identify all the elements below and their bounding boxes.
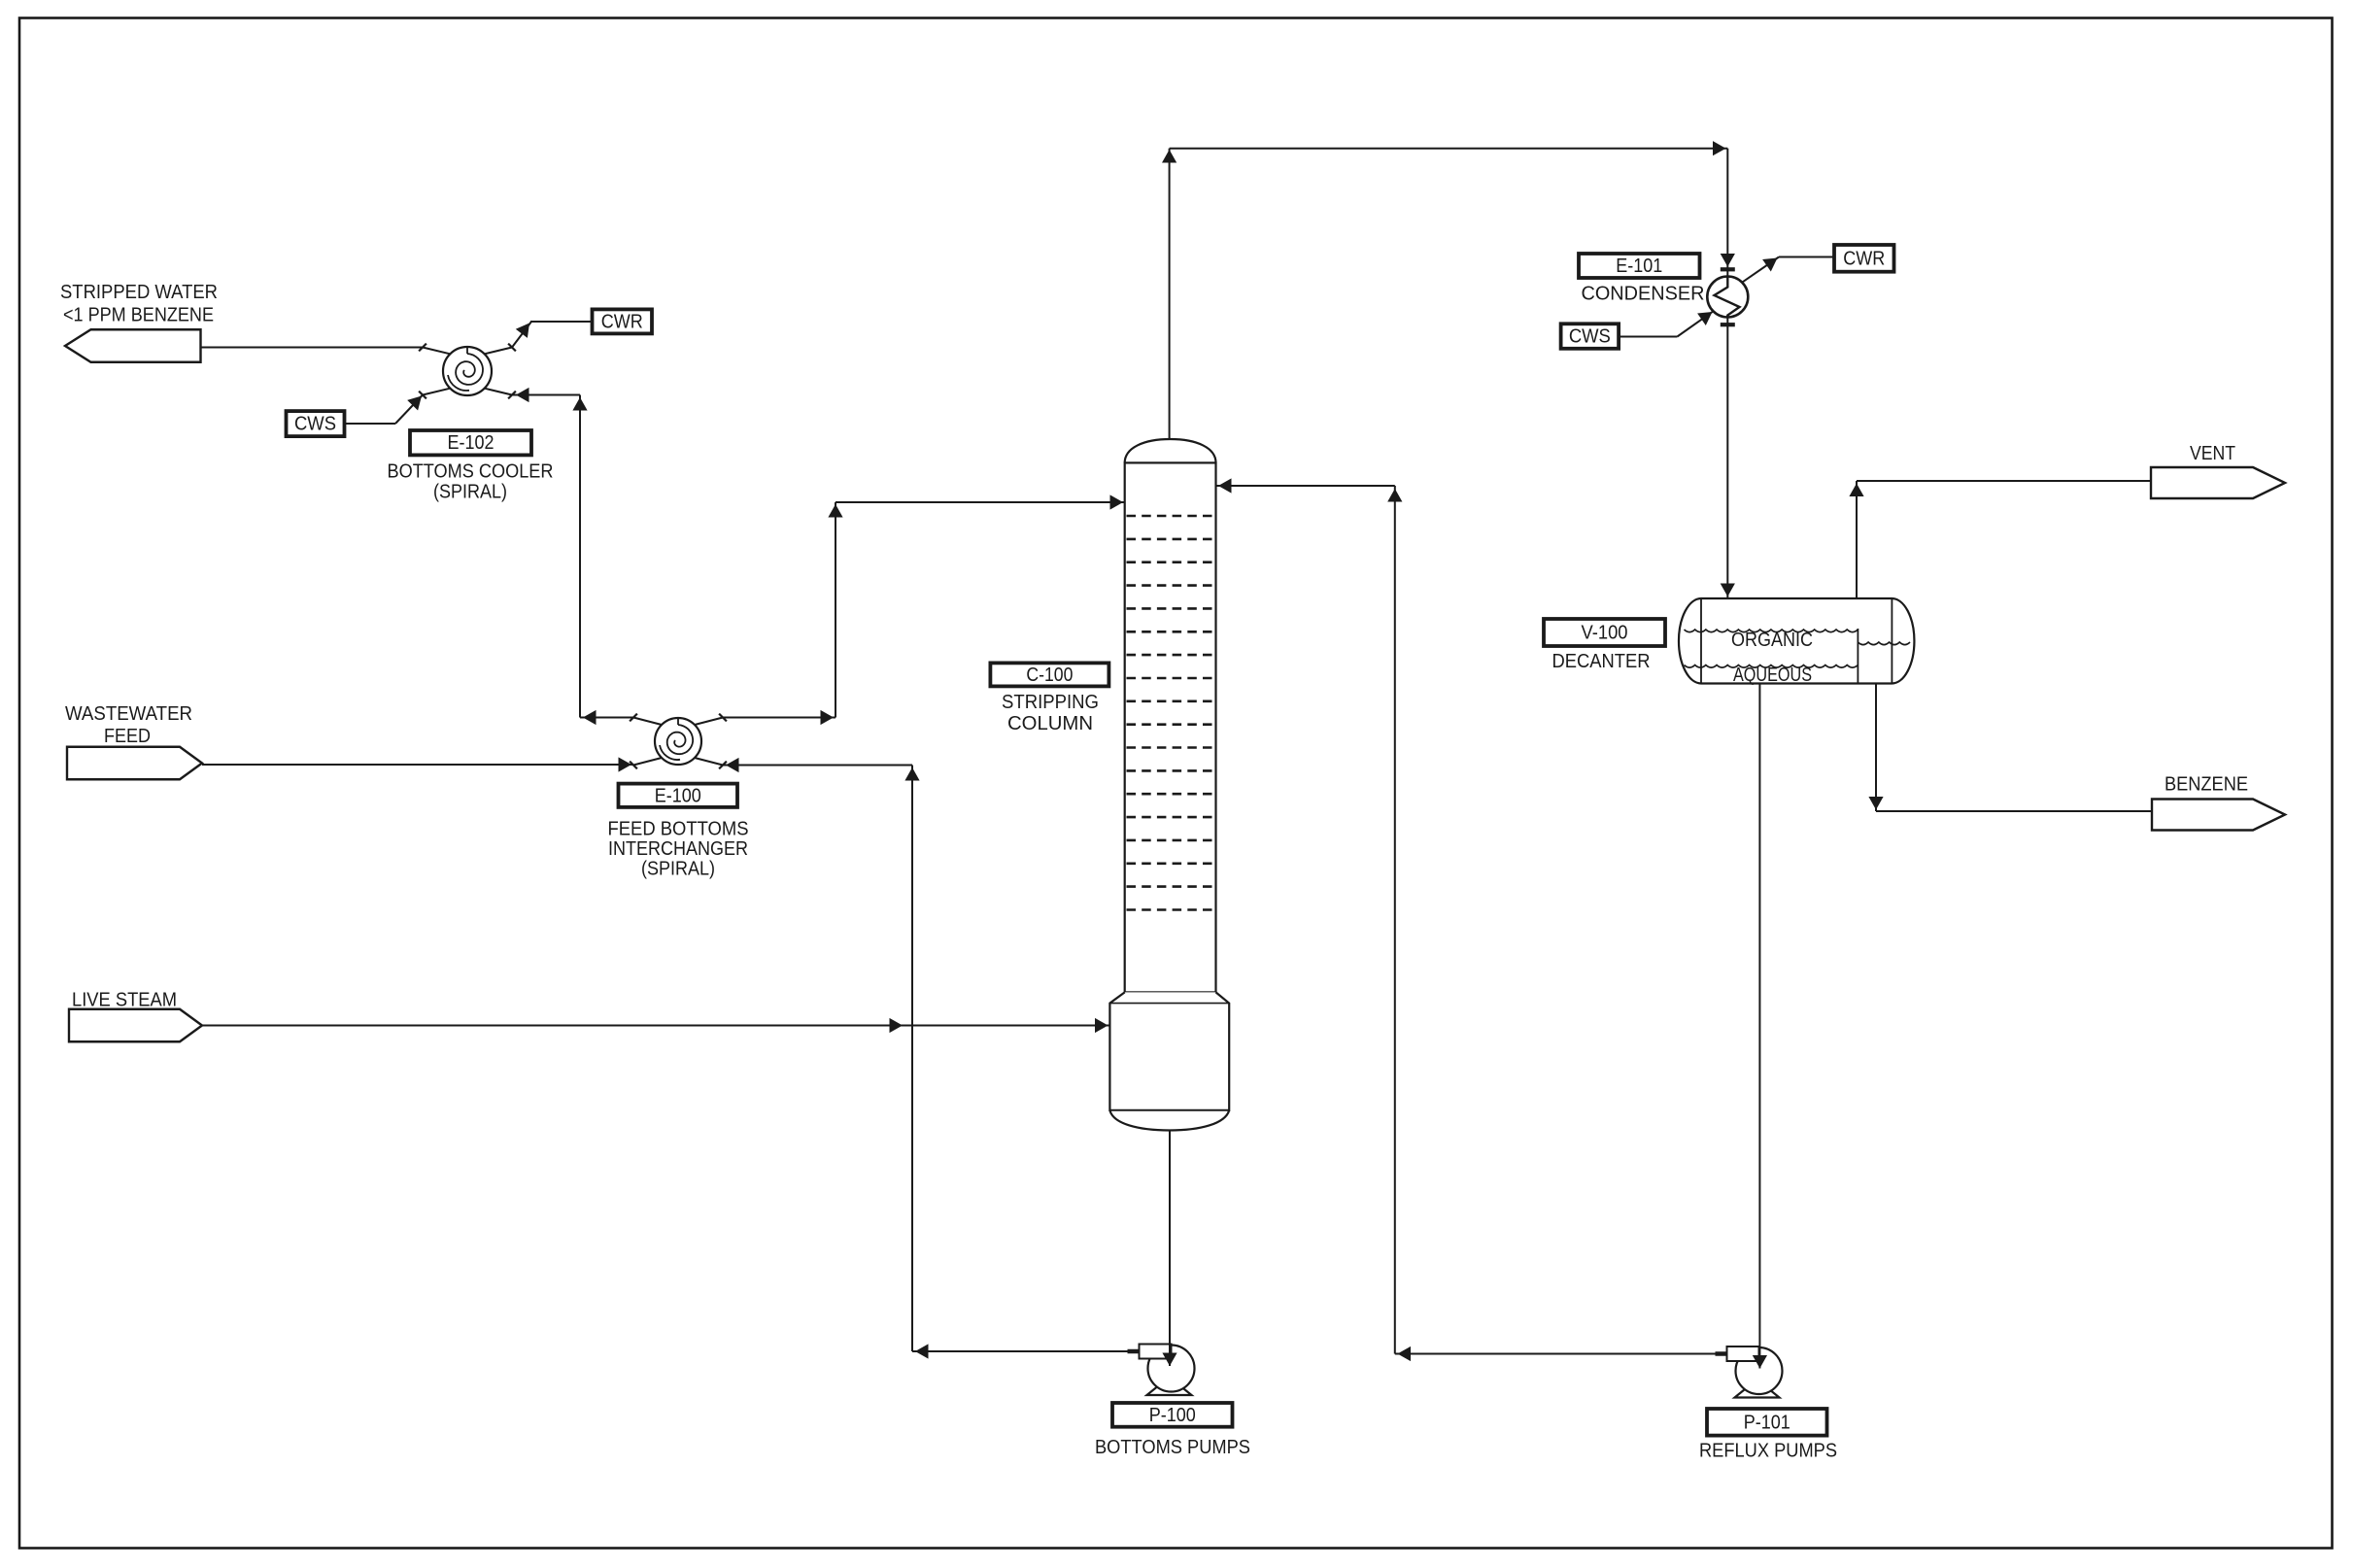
wire hot bottoms from riser into E-100 bbox=[723, 758, 912, 772]
wire P-100 discharge to riser bbox=[912, 1344, 1128, 1358]
decanter V-100 vessel bbox=[1679, 598, 1914, 684]
heat exchanger E-102 (spiral bottoms cooler) bbox=[419, 344, 516, 399]
tag box E-101 bbox=[1579, 254, 1700, 278]
decanter weir bbox=[1857, 629, 1859, 683]
wire CWS to E-101 bbox=[1619, 311, 1714, 336]
svg-text:DECANTER: DECANTER bbox=[1552, 650, 1651, 672]
label LIVE STEAM bbox=[72, 989, 177, 1011]
utility box CWR (E-102) bbox=[593, 309, 653, 333]
svg-text:CWS: CWS bbox=[1569, 325, 1611, 348]
decanter organic level (wavy) bbox=[1685, 630, 1859, 632]
column C-100 trays (dashed) bbox=[1127, 516, 1214, 910]
tag box P-101 bbox=[1707, 1409, 1827, 1436]
svg-text:<1 PPM BENZENE: <1 PPM BENZENE bbox=[63, 304, 214, 326]
wire reflux riser bbox=[1387, 486, 1402, 1354]
stream pointer STRIPPED WATER (outlet, points left) bbox=[65, 329, 201, 362]
utility box CWS (E-101) bbox=[1561, 324, 1620, 349]
svg-text:P-100: P-100 bbox=[1149, 1404, 1196, 1426]
wire organic outlet to benzene pointer bbox=[1868, 684, 2152, 812]
utility box CWS (E-102) bbox=[287, 411, 345, 436]
svg-text:(SPIRAL): (SPIRAL) bbox=[433, 481, 507, 503]
svg-text:REFLUX PUMPS: REFLUX PUMPS bbox=[1699, 1440, 1837, 1462]
svg-text:CWS: CWS bbox=[294, 413, 336, 435]
wire cooled bottoms E-100 to riser corner bbox=[580, 710, 633, 725]
label CONDENSER bbox=[1582, 283, 1705, 305]
wire CWS to E-102 bbox=[345, 395, 424, 425]
tag box C-100 bbox=[990, 663, 1108, 686]
wire E-102 CWR outlet diagonal bbox=[512, 322, 531, 348]
svg-text:LIVE STEAM: LIVE STEAM bbox=[72, 989, 177, 1011]
wire bottoms riser pump to E-100 bbox=[904, 766, 919, 1352]
wire overhead horizontal to condenser bbox=[1170, 141, 1728, 155]
svg-text:STRIPPED WATER: STRIPPED WATER bbox=[60, 281, 218, 303]
label STRIPPING COLUMN bbox=[1002, 691, 1099, 734]
tag box E-102 bbox=[410, 430, 531, 455]
label FEED BOTTOMS INTERCHANGER (SPIRAL) bbox=[608, 818, 749, 880]
svg-text:C-100: C-100 bbox=[1026, 664, 1073, 686]
svg-text:CONDENSER: CONDENSER bbox=[1582, 283, 1705, 305]
wire heated feed riser bbox=[828, 502, 842, 718]
wire heated feed to column bbox=[835, 494, 1125, 509]
utility box CWR (E-101) bbox=[1834, 245, 1894, 272]
label WASTEWATER FEED bbox=[65, 702, 192, 747]
wire heated feed E-100 to corner bbox=[723, 710, 835, 725]
wire reflux into column bbox=[1216, 478, 1395, 493]
tag box E-100 bbox=[619, 784, 738, 807]
label STRIPPED WATER &lt;1 PPM BENZENE bbox=[60, 281, 218, 326]
svg-text:ORGANIC: ORGANIC bbox=[1731, 629, 1813, 651]
wire hot bottoms into E-102 (from riser) bbox=[512, 388, 580, 402]
column C-100 shell and top dome bbox=[1125, 439, 1216, 992]
svg-text:CWR: CWR bbox=[1843, 247, 1885, 269]
pump P-100 (bottoms pump) bbox=[1128, 1345, 1195, 1396]
svg-text:STRIPPING: STRIPPING bbox=[1002, 691, 1099, 713]
label REFLUX PUMPS bbox=[1699, 1440, 1837, 1462]
wire column bottoms to P-100 bbox=[1162, 1131, 1176, 1367]
svg-text:V-100: V-100 bbox=[1582, 622, 1628, 644]
wire live steam to column bbox=[202, 1018, 1109, 1033]
svg-text:BOTTOMS COOLER: BOTTOMS COOLER bbox=[388, 460, 554, 483]
wire bottoms riser E-100 to E-102 bbox=[572, 395, 587, 718]
wire wastewater feed to E-100 bbox=[202, 757, 633, 771]
svg-text:P-101: P-101 bbox=[1744, 1411, 1790, 1433]
wire aqueous outlet decanter to P-101 bbox=[1753, 684, 1767, 1369]
svg-text:FEED: FEED bbox=[104, 725, 151, 747]
label BENZENE bbox=[2165, 773, 2248, 796]
heat exchanger E-100 (spiral feed/bottoms interchanger) bbox=[630, 714, 727, 769]
svg-text:E-102: E-102 bbox=[448, 431, 494, 454]
svg-text:WASTEWATER: WASTEWATER bbox=[65, 702, 192, 725]
stream pointer BENZENE bbox=[2152, 800, 2285, 831]
wire E-102 CWR horizontal bbox=[530, 321, 593, 323]
label DECANTER bbox=[1552, 650, 1651, 672]
tag box V-100 bbox=[1544, 619, 1665, 646]
svg-text:CWR: CWR bbox=[601, 310, 643, 332]
stream pointer WASTEWATER FEED bbox=[67, 747, 202, 780]
wire P-101 discharge to reflux riser bbox=[1395, 1346, 1716, 1361]
svg-text:COLUMN: COLUMN bbox=[1007, 712, 1093, 734]
condenser E-101 (circle with zigzag) bbox=[1707, 269, 1748, 324]
wire column overhead riser bbox=[1162, 149, 1176, 439]
svg-text:E-100: E-100 bbox=[655, 784, 701, 806]
decanter overflow level (wavy) bbox=[1858, 642, 1910, 645]
svg-text:BOTTOMS PUMPS: BOTTOMS PUMPS bbox=[1095, 1436, 1250, 1458]
decanter interface level (wavy) bbox=[1685, 665, 1859, 668]
svg-text:BENZENE: BENZENE bbox=[2165, 773, 2248, 796]
svg-text:E-101: E-101 bbox=[1616, 255, 1662, 277]
wire vent from decanter bbox=[1849, 481, 2151, 598]
svg-text:VENT: VENT bbox=[2190, 442, 2235, 464]
label ORGANIC bbox=[1731, 629, 1813, 651]
stream pointer VENT bbox=[2151, 467, 2285, 498]
wire condensate E-101 to decanter V-100 bbox=[1721, 317, 1735, 598]
label AQUEOUS bbox=[1733, 664, 1812, 686]
wire E-101 CWR diagonal bbox=[1742, 257, 1779, 283]
wire overhead down to condenser E-101 bbox=[1721, 149, 1735, 278]
label BOTTOMS COOLER (SPIRAL) bbox=[388, 460, 554, 503]
svg-text:AQUEOUS: AQUEOUS bbox=[1733, 664, 1812, 686]
wire E-101 CWR horizontal bbox=[1779, 256, 1834, 258]
svg-text:(SPIRAL): (SPIRAL) bbox=[641, 858, 715, 880]
wire stripped water E-102 to outlet pointer bbox=[201, 347, 424, 349]
pump P-101 (reflux pump) bbox=[1716, 1346, 1783, 1398]
label VENT bbox=[2190, 442, 2235, 464]
column C-100 bottom sump and dome bbox=[1109, 992, 1229, 1130]
stream pointer LIVE STEAM bbox=[69, 1009, 202, 1042]
label BOTTOMS PUMPS bbox=[1095, 1436, 1250, 1458]
tag box P-100 bbox=[1112, 1403, 1233, 1427]
